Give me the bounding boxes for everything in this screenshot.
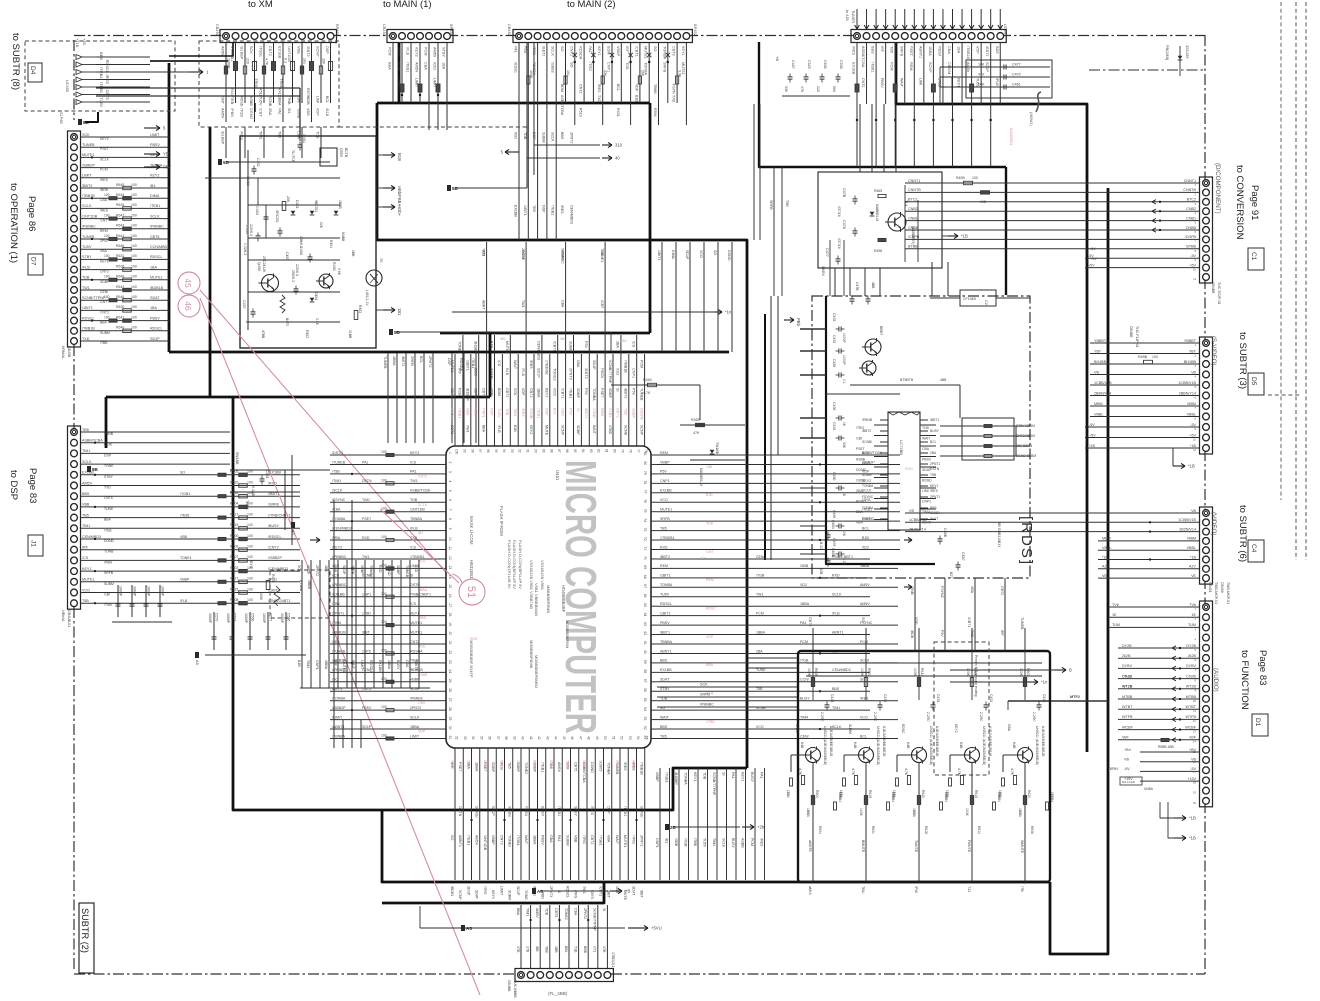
svg-text:RXD: RXD: [378, 565, 382, 573]
pink revision circle pair left: [178, 272, 200, 294]
svg-text:PBSV: PBSV: [150, 143, 160, 147]
svg-text:RDSCL: RDSCL: [660, 602, 672, 606]
svg-text:/SBB: /SBB: [800, 564, 809, 568]
svg-text:/SBB: /SBB: [674, 838, 678, 847]
svg-text:KEY1: KEY1: [930, 484, 939, 488]
svg-text:CBT2: CBT2: [268, 46, 272, 56]
svg-text:/TNB/CNBT1: /TNB/CNBT1: [410, 593, 431, 597]
svg-text:SD1P: SD1P: [537, 368, 541, 378]
svg-text:CEN/: CEN/: [756, 555, 764, 559]
svg-text:MTF2: MTF2: [1070, 695, 1080, 699]
svg-text:VBA: VBA: [856, 489, 864, 493]
svg-text:R454: R454: [643, 378, 652, 382]
svg-text:CEN/: CEN/: [800, 734, 809, 738]
svg-text:TBNBA: TBNBA: [660, 640, 673, 644]
svg-text:-5V: -5V: [1089, 423, 1095, 427]
svg-text:VBA: VBA: [856, 521, 864, 525]
svg-text:1BA: 1BA: [957, 46, 961, 54]
svg-text:RDSD: RDSD: [856, 500, 866, 504]
svg-text:SD1P: SD1P: [362, 725, 372, 729]
svg-text:+5V: +5V: [1089, 433, 1096, 437]
component cluster below CB459 left: [788, 76, 793, 78]
transistor Q451: [319, 274, 333, 288]
svg-text:CBT2: CBT2: [450, 425, 454, 434]
flag 8B near DSP top: [87, 466, 91, 472]
svg-text:CB4BB: CB4BB: [507, 980, 511, 992]
svg-text:SCNB: SCNB: [268, 96, 272, 107]
svg-text:KEY2: KEY2: [862, 462, 871, 466]
svg-text:ASBB/TCBA: ASBB/TCBA: [410, 489, 431, 493]
svg-text:MABB51-M: MABB51-M: [875, 204, 879, 222]
svg-text:1BBA: 1BBA: [351, 565, 355, 575]
svg-text:/1BI: /1BI: [856, 437, 862, 441]
svg-text:100K: 100K: [807, 668, 811, 677]
svg-text:21: 21: [448, 641, 452, 645]
RDS right connections: [1015, 426, 1017, 456]
svg-text:38: 38: [504, 736, 508, 740]
svg-text:TUC-F11P-01: TUC-F11P-01: [1135, 326, 1139, 348]
svg-text:MDBBBBBPBM: MDBBBBBPBM: [565, 620, 570, 648]
svg-text:1BBA: 1BBA: [800, 602, 810, 606]
svg-text:/TBB1B: /TBB1B: [966, 46, 970, 60]
svg-text:CNNTB: CNNTB: [908, 188, 921, 192]
svg-text:/TBB1B: /TBB1B: [640, 762, 644, 775]
svg-text:/RES: /RES: [397, 47, 401, 56]
resistor R454 4.7K: [648, 383, 657, 386]
svg-text:SD1P: SD1P: [985, 62, 989, 72]
svg-text:PA1: PA1: [514, 46, 518, 53]
D1 wire bundle mid group: [1118, 647, 1199, 649]
svg-text:R4BB: R4BB: [1138, 355, 1148, 359]
svg-text:CCN/MBD2: CCN/MBD2: [150, 245, 169, 249]
svg-text:BCL: BCL: [860, 734, 867, 738]
svg-text:1E: 1E: [1112, 613, 1117, 617]
thick bus vertical x=233 y397-810 and bottom of central box: [233, 397, 747, 810]
svg-text:/T5B: /T5B: [332, 470, 340, 474]
svg-text:UB#4A: UB#4A: [61, 610, 65, 622]
svg-text:4: 4: [448, 480, 452, 482]
svg-text:/CBA: /CBA: [332, 508, 341, 512]
svg-text:TONE2: TONE2: [508, 835, 512, 847]
svg-text:10K: 10K: [842, 530, 846, 537]
svg-text:CNP1: CNP1: [315, 660, 319, 670]
svg-text:MUTE1: MUTE1: [410, 630, 422, 634]
svg-text:VB: VB: [1191, 509, 1196, 513]
svg-text:ABNT1: ABNT1: [832, 630, 844, 634]
svg-text:CBT2: CBT2: [1000, 586, 1004, 595]
svg-text:ABNT1: ABNT1: [918, 46, 922, 58]
wire y=891 with +B arrow: [540, 890, 608, 892]
svg-text:9: 9: [448, 528, 452, 530]
svg-text:BT5BTB: BT5BTB: [900, 378, 914, 382]
MAIN1 wire fans: [392, 43, 394, 104]
svg-text:100: 100: [104, 315, 110, 319]
svg-text:/CS: /CS: [82, 556, 89, 560]
svg-text:TU5V: TU5V: [702, 838, 706, 848]
svg-text:100: 100: [131, 275, 137, 279]
svg-text:CNT2: CNT2: [529, 388, 533, 398]
arrows on some right wires: [904, 539, 912, 541]
svg-text:C4BB: C4BB: [831, 548, 835, 558]
svg-text:12: 12: [448, 556, 452, 560]
svg-text:/B1BBP: /B1BBP: [474, 341, 478, 354]
svg-text:LIMIT: LIMIT: [82, 174, 92, 178]
svg-text:AM5V: AM5V: [535, 908, 539, 918]
svg-text:SCNB/TTPNP: SCNB/TTPNP: [608, 360, 612, 384]
svg-text:/BDB: /BDB: [306, 96, 310, 105]
connector CB451 to XM: [220, 30, 337, 43]
svg-text:TXD: TXD: [597, 95, 601, 103]
double dashed sheet edge far right: [1295, 2, 1297, 560]
svg-text:HBb/FBB+: HBb/FBB+: [397, 186, 402, 206]
svg-text:REM: REM: [706, 578, 714, 582]
svg-text:BBA: BBA: [481, 425, 485, 433]
box internal rails: [247, 150, 249, 330]
svg-text:6: 6: [448, 499, 452, 501]
svg-text:/1BIT1: /1BIT1: [523, 205, 527, 216]
svg-text:TXD: TXD: [672, 95, 676, 103]
svg-text:22K: 22K: [319, 222, 323, 229]
verticals from C1 area down to RDS top: [931, 262, 933, 296]
svg-text:+5V: +5V: [1088, 263, 1095, 267]
thick bus horizontal y=333 x440-650: [440, 332, 650, 335]
svg-text:DSP: DSP: [532, 132, 536, 140]
svg-text:WAIT: WAIT: [615, 835, 619, 845]
svg-text:/BBT2: /BBT2: [660, 555, 670, 559]
svg-text:DSTN: DSTN: [458, 806, 462, 817]
svg-text:R520: R520: [230, 480, 238, 484]
svg-text:VBBL: VBBL: [1187, 546, 1196, 550]
label D4 box: [28, 63, 42, 82]
svg-text:SRFB: SRFB: [769, 200, 773, 210]
svg-text:C493: C493: [832, 538, 836, 546]
svg-text:/BBT1: /BBT1: [541, 46, 545, 57]
connector D4 triangle pins: [76, 55, 82, 60]
svg-text:PCM: PCM: [860, 640, 868, 644]
svg-text:J1: J1: [30, 540, 37, 547]
svg-text:REM: REM: [600, 408, 604, 416]
svg-text:/B1: /B1: [150, 184, 156, 188]
svg-text:VDP: VDP: [316, 108, 320, 116]
svg-text:41: 41: [529, 736, 533, 740]
svg-text:C478: C478: [842, 220, 846, 229]
svg-text:RXD: RXD: [433, 62, 437, 70]
svg-text:100: 100: [104, 295, 110, 299]
thick bus vertical x=490 y333-397: [489, 333, 492, 397]
svg-text:2BB: 2BB: [351, 250, 355, 257]
svg-text:R643: R643: [116, 224, 124, 228]
svg-text:56: 56: [643, 688, 647, 692]
transistor Q471 in RDS: [862, 361, 876, 375]
svg-text:+5V: +5V: [1090, 257, 1097, 261]
svg-text:100: 100: [104, 275, 110, 279]
svg-text:R455: R455: [691, 418, 700, 422]
svg-text:2BA: 2BA: [756, 649, 763, 653]
svg-text:0.1: 0.1: [284, 58, 288, 63]
svg-text:83: 83: [589, 449, 593, 453]
svg-text:C461: C461: [265, 470, 269, 479]
svg-text:ABNT: ABNT: [481, 300, 485, 310]
svg-text:100: 100: [131, 224, 137, 228]
svg-text:16: 16: [1193, 760, 1197, 764]
svg-text:/RDSCL: /RDSCL: [268, 535, 282, 539]
svg-text:100: 100: [131, 285, 137, 289]
svg-text:1TBD/B1: 1TBD/B1: [410, 555, 425, 559]
svg-text:47K: 47K: [693, 431, 700, 435]
svg-text:11: 11: [1193, 709, 1196, 713]
svg-text:1TBD: 1TBD: [608, 425, 612, 435]
svg-text:T22: T22: [967, 886, 971, 892]
svg-text:/1BIT1: /1BIT1: [660, 574, 671, 578]
svg-text:SCLK: SCLK: [549, 760, 553, 770]
svg-text:/RES: /RES: [560, 205, 564, 214]
svg-text:/FLB: /FLB: [410, 526, 418, 530]
svg-text:PSET: PSET: [100, 147, 109, 151]
svg-text:1CBB/V1B: 1CBB/V1B: [1094, 381, 1112, 385]
RDS input caps from left edge: [800, 328, 826, 330]
wire bundle from IC top pins to bus: [454, 354, 456, 440]
svg-text:FSYN: FSYN: [672, 84, 676, 94]
svg-text:FLASH D-CON(BP1L#P 5V: FLASH D-CON(BP1L#P 5V: [518, 540, 523, 589]
svg-text:R498: R498: [874, 249, 882, 253]
cap C453: [264, 216, 269, 218]
svg-text:1BB: 1BB: [554, 946, 558, 953]
svg-text:BBS: BBS: [871, 46, 875, 54]
resistor R455 47K: [696, 423, 705, 426]
svg-text:1TB: 1TB: [516, 946, 520, 953]
svg-text:A2V: A2V: [1102, 565, 1110, 569]
svg-text:CNP1: CNP1: [481, 408, 485, 418]
thick bus top right: x=896 riser, y=104 x896-1087, x=1087 down: [896, 42, 1087, 752]
svg-text:/TGB1: /TGB1: [664, 772, 668, 783]
svg-text:/VBA: /VBA: [332, 536, 341, 540]
svg-text:R517: R517: [230, 577, 238, 581]
svg-text:SD1P: SD1P: [592, 360, 596, 370]
svg-text:29G/6.3: 29G/6.3: [291, 270, 295, 282]
svg-text:RDSDA: RDSDA: [579, 46, 583, 60]
svg-text:1000P: 1000P: [133, 586, 137, 597]
svg-text:CNP1: CNP1: [569, 46, 573, 56]
svg-text:1BBB: 1BBB: [1018, 808, 1022, 817]
svg-text:1BBA: 1BBA: [392, 356, 396, 366]
svg-text:BDM: BDM: [397, 62, 401, 70]
cap C454: [256, 235, 261, 237]
svg-text:R606: R606: [814, 668, 818, 676]
svg-text:10B: 10B: [980, 200, 987, 204]
transistor Q602 mute stage: [865, 651, 867, 700]
svg-text:78: 78: [643, 480, 647, 484]
svg-text:4BB: 4BB: [940, 378, 947, 382]
svg-text:SCNB/: SCNB/: [529, 408, 533, 420]
svg-text:EX1BB: EX1BB: [660, 668, 672, 672]
svg-text:76: 76: [644, 449, 648, 453]
svg-text:/TBB: /TBB: [100, 341, 108, 345]
svg-text:TB5: TB5: [660, 526, 667, 530]
svg-text:BDM: BDM: [497, 388, 501, 396]
svg-text:TONE2: TONE2: [564, 908, 568, 920]
svg-text:TBNBA: TBNBA: [410, 517, 423, 521]
svg-text:R640: R640: [116, 326, 124, 330]
svg-text:BBL: BBL: [564, 946, 568, 953]
svg-text:BH1BB: BH1BB: [1094, 360, 1107, 364]
svg-text:*1B: *1B: [1089, 444, 1095, 448]
RDS area dash-dot box: [812, 296, 1030, 578]
svg-text:/1BIT1: /1BIT1: [660, 611, 671, 615]
svg-text:to OPERATION (1): to OPERATION (1): [8, 183, 19, 263]
svg-text:/TBB1B: /TBB1B: [82, 327, 95, 331]
operation wire bundle: [81, 136, 170, 138]
svg-text:VCO: VCO: [82, 588, 90, 592]
svg-text:NO-LOAD: NO-LOAD: [1122, 780, 1135, 784]
svg-text:SCLK: SCLK: [862, 489, 872, 493]
svg-text:C47B: C47B: [855, 282, 859, 291]
svg-text:MBM: MBM: [1187, 537, 1196, 541]
svg-text:STBY: STBY: [574, 806, 578, 816]
caps C477 C478: [853, 198, 858, 200]
svg-text:SUBM: SUBM: [104, 582, 114, 586]
thick bus right vertical x=1108 y188-954 and y=954 link: [1050, 188, 1108, 954]
svg-text:aMU/: aMU/: [808, 886, 812, 896]
svg-text:BBA: BBA: [104, 518, 112, 522]
svg-text:/TIM4: /TIM4: [332, 621, 341, 625]
svg-text:PSET: PSET: [458, 762, 462, 772]
svg-text:P5V: P5V: [523, 46, 527, 54]
svg-text:TONE1: TONE1: [600, 250, 604, 262]
svg-text:17: 17: [448, 603, 452, 607]
svg-text:/TRG: /TRG: [631, 835, 635, 844]
svg-text:91: 91: [526, 449, 530, 453]
svg-text:100: 100: [247, 534, 253, 538]
svg-text:CBT5: CBT5: [481, 388, 485, 397]
svg-text:K4B: K4B: [959, 742, 963, 749]
svg-text:2PNT1: 2PNT1: [930, 462, 940, 466]
svg-text:TUNE: TUNE: [450, 760, 454, 770]
D1 supply group: [1140, 751, 1199, 753]
svg-text:T5B: T5B: [930, 473, 937, 477]
verticals from buffer box down to RDS box: [834, 268, 836, 296]
svg-text:BBA: BBA: [516, 908, 520, 916]
DSP cap cluster B x211-303: [205, 654, 306, 656]
svg-text:100: 100: [381, 677, 387, 681]
label row under y352 bus: [451, 353, 453, 443]
svg-text:/BDB: /BDB: [100, 188, 109, 192]
svg-text:SDBP: SDBP: [100, 280, 110, 284]
svg-text:VBB: VBB: [82, 503, 90, 507]
svg-text:/TEB1: /TEB1: [471, 358, 475, 368]
svg-text:/TEB1: /TEB1: [180, 513, 190, 517]
svg-text:to CONVERSION: to CONVERSION: [1234, 165, 1245, 240]
svg-text:/RES: /RES: [105, 75, 110, 85]
arrow into connector: [856, 9, 858, 29]
svg-text:VBBP: VBBP: [660, 460, 670, 464]
svg-text:1BBA: 1BBA: [475, 762, 479, 772]
svg-text:1BBA: 1BBA: [278, 96, 282, 106]
svg-text:55: 55: [644, 736, 648, 740]
svg-text:-5V: -5V: [1090, 247, 1096, 251]
svg-text:UN5211 (A1B1M1B/BB1B): UN5211 (A1B1M1B/BB1B): [1035, 726, 1039, 765]
svg-text:1TBD: 1TBD: [362, 611, 371, 615]
thin line y=312 with arrow *1n: [452, 311, 714, 313]
svg-text:10K: 10K: [322, 58, 326, 65]
svg-text:100: 100: [247, 545, 253, 549]
svg-text:PSET: PSET: [362, 517, 372, 521]
svg-text:TU5V: TU5V: [660, 593, 670, 597]
svg-text:/TRG: /TRG: [588, 62, 592, 71]
svg-text:66: 66: [643, 594, 647, 598]
svg-text:CBA: CBA: [549, 835, 553, 843]
svg-text:4.7K: 4.7K: [265, 58, 269, 66]
component cluster below CB459 right caps C469: [966, 60, 1052, 98]
svg-text:RDSD: RDSD: [922, 479, 932, 483]
svg-text:/TGB1: /TGB1: [180, 492, 190, 496]
svg-text:10: 10: [1193, 699, 1197, 703]
svg-text:C424: C424: [1042, 694, 1046, 702]
svg-text:/TGB1: /TGB1: [598, 835, 602, 846]
svg-text:BBA: BBA: [706, 663, 714, 667]
svg-text:55: 55: [643, 698, 647, 702]
svg-text:100: 100: [455, 449, 459, 455]
svg-text:CBT5: CBT5: [574, 762, 578, 771]
svg-text:10: 10: [1193, 268, 1197, 272]
svg-text:SO: SO: [861, 617, 865, 622]
extra verticals between buses right of IC: [753, 104, 755, 240]
svg-text:LIMI: LIMI: [922, 489, 929, 493]
svg-text:D7: D7: [30, 257, 37, 266]
svg-text:/PBN: /PBN: [104, 560, 112, 564]
svg-text:/BDB1: /BDB1: [450, 886, 454, 896]
svg-text:VCO: VCO: [660, 498, 668, 502]
svg-text:(AUDIO): (AUDIO): [1212, 668, 1219, 692]
svg-text:TVb: TVb: [1112, 603, 1119, 607]
svg-text:/B1: /B1: [664, 838, 668, 843]
svg-text:SI: SI: [616, 388, 620, 391]
svg-text:VDP: VDP: [976, 46, 980, 54]
svg-text:/FLB: /FLB: [521, 368, 525, 376]
svg-text:0.22/6.3: 0.22/6.3: [243, 243, 247, 255]
svg-text:MBM: MBM: [1102, 537, 1111, 541]
wires right of buffer to C1 bundle: [904, 185, 906, 262]
svg-text:CNT2: CNT2: [795, 724, 799, 733]
svg-text:98: 98: [470, 449, 474, 453]
svg-text:BT4BB: BT4BB: [299, 580, 303, 592]
svg-text:TUNEB: TUNEB: [405, 565, 409, 578]
svg-text:SDBP: SDBP: [576, 388, 580, 399]
svg-text:D1: D1: [1254, 718, 1261, 727]
svg-text:R502: R502: [230, 566, 238, 570]
arrow into connector: [923, 9, 925, 29]
svg-text:SCLK: SCLK: [410, 715, 420, 719]
connector CB453 to MAIN (1): [387, 30, 453, 43]
svg-text:BUSY: BUSY: [750, 772, 754, 783]
svg-text:/BBT: /BBT: [640, 890, 644, 899]
svg-text:RDSCL: RDSCL: [565, 886, 569, 898]
svg-text:TW1: TW1: [756, 593, 763, 597]
svg-text:R607: R607: [1026, 668, 1030, 676]
svg-text:CB400: CB400: [1220, 582, 1224, 593]
svg-text:100: 100: [131, 264, 137, 268]
svg-text:/TEB1: /TEB1: [537, 408, 541, 418]
svg-text:DIMA: DIMA: [150, 194, 160, 198]
svg-text:51: 51: [465, 586, 477, 598]
svg-text:80: 80: [643, 461, 647, 465]
thick bus y=167 x759-1006 with risers: [759, 42, 1006, 167]
svg-text:SCK: SCK: [700, 683, 708, 687]
svg-text:10u: 10u: [303, 58, 307, 64]
svg-text:TBEA: TBEA: [245, 500, 249, 510]
svg-text:/1NT: /1NT: [221, 96, 225, 105]
svg-text:B1B: B1B: [397, 153, 402, 161]
MTR3 wire from transistor box: [1008, 700, 1108, 702]
